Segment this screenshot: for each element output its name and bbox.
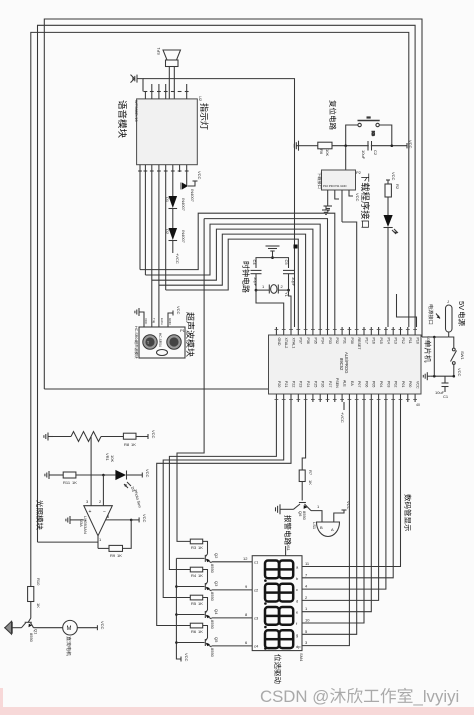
svg-text:12: 12: [243, 556, 248, 561]
wire power bottom rail: [430, 375, 454, 377]
svg-text:GND: GND: [168, 318, 172, 326]
svg-text:VCC: VCC: [197, 171, 202, 180]
svg-text:VCC: VCC: [391, 172, 396, 181]
potentiometer VR1 10K: [53, 432, 123, 506]
svg-text:1K: 1K: [198, 629, 203, 634]
node (reset-P2 junction): [344, 144, 347, 147]
svg-text:VCC: VCC: [151, 430, 156, 439]
resistor R7 1K: [299, 470, 305, 482]
crystal oval: [157, 350, 168, 356]
node rail-Q3: [175, 585, 178, 588]
svg-text:40: 40: [416, 403, 420, 407]
label 指示灯: [200, 103, 208, 129]
svg-text:P10: P10: [416, 338, 420, 344]
wire loop line 1 (track1 to MCU P33): [140, 213, 335, 327]
svg-text:P10 P30 P31 GND: P10 P30 P31 GND: [323, 184, 346, 188]
wire xtal to MCU pins: [256, 290, 284, 327]
svg-text:8550: 8550: [29, 633, 34, 643]
wire voice pin5 column: [165, 172, 167, 290]
ground (reset): [294, 141, 303, 151]
capacitor C5 30pF: [283, 260, 296, 291]
wire segment d to MCU: [302, 402, 379, 600]
svg-text:P12: P12: [401, 338, 405, 344]
svg-text:R9: R9: [110, 553, 116, 558]
MCU bottom pin stubs: [276, 394, 415, 402]
resistor R4 1K: [190, 567, 202, 572]
wire VCC pin stub to +VCC rail: [343, 402, 345, 410]
capacitor C2 10uF: [361, 141, 378, 160]
svg-text:VCC: VCC: [416, 381, 420, 389]
svg-text:8550: 8550: [210, 620, 215, 630]
display pin names: [254, 560, 301, 650]
svg-text:P13: P13: [394, 338, 398, 344]
resistor R2 (indicator): [385, 172, 400, 215]
svg-text:P11: P11: [408, 338, 412, 344]
wire reset node down to P2 connector: [345, 146, 347, 170]
wire outer loop 2 (light sensor line: top y=25.3, left x=37.5, right x=415): [38, 25, 416, 542]
ground near MCU top (EA): [322, 206, 330, 215]
resistor R3 1K: [190, 539, 202, 544]
node rail-Q4: [175, 613, 178, 616]
svg-text:89C52: 89C52: [339, 358, 344, 371]
wire P10 jog to MCU: [397, 294, 417, 327]
svg-text:P14: P14: [386, 338, 390, 344]
svg-text:−: −: [103, 509, 106, 515]
LED D4 indicator: [384, 215, 399, 327]
output: [97, 536, 99, 549]
svg-text:10uF: 10uF: [361, 150, 366, 160]
svg-text:Q3: Q3: [214, 581, 219, 587]
svg-text:dp: dp: [296, 644, 301, 649]
svg-text:VCC: VCC: [142, 514, 147, 523]
speaker SP1: [156, 47, 181, 67]
wire crystal rails: [256, 289, 269, 291]
wire loop line 4 (echo track to MCU P36): [159, 234, 306, 327]
svg-text:P00: P00: [408, 381, 412, 387]
svg-text:Trig: Trig: [152, 318, 156, 323]
svg-text:Q4: Q4: [214, 609, 219, 615]
photodiode D3 Photo Sen: [115, 469, 150, 508]
wire segment c to MCU: [302, 402, 386, 589]
wire loop line 2 (track2 to MCU P35): [145, 224, 320, 327]
wire loop line 3 (trig track to MCU P34): [152, 229, 313, 327]
label 位选驱动: [274, 654, 281, 683]
MCU top pin tick labels: [275, 329, 418, 331]
svg-text:LS1: LS1: [312, 522, 317, 530]
svg-text:ALE/PROG: ALE/PROG: [344, 352, 349, 373]
svg-text:P01: P01: [401, 381, 405, 387]
capacitor C4 30pF: [251, 260, 262, 291]
svg-text:10: 10: [305, 618, 310, 623]
ground (clock): [266, 246, 280, 258]
label 数码管显示: [404, 494, 411, 531]
svg-text:+VCC: +VCC: [175, 253, 180, 264]
svg-text:5V: 5V: [457, 301, 466, 310]
svg-text:C2: C2: [373, 150, 378, 156]
svg-text:C5: C5: [284, 260, 289, 266]
diode D2 IN4007: [165, 209, 186, 244]
svg-text:VCC: VCC: [355, 193, 360, 202]
decimal point 2: [264, 602, 267, 605]
svg-text:EA: EA: [350, 381, 354, 386]
label +VCC below diode chain: [172, 241, 174, 254]
digit 3: [265, 607, 293, 625]
svg-text:R10: R10: [36, 578, 41, 586]
wire outer loop 1 (motor line: top y=32.4, left x=31, right x=409): [31, 32, 409, 586]
MCU top pin stubs: [276, 327, 415, 335]
wire buzzer to VCC: [334, 510, 344, 522]
svg-text:8550: 8550: [302, 511, 307, 521]
transistor Q1 8550: [22, 622, 39, 642]
svg-text:M: M: [67, 626, 72, 632]
voice module U1 chip body: [137, 99, 198, 165]
node (bus corner): [294, 245, 298, 249]
wire Q6 collector to buzzer: [311, 511, 322, 522]
switch SW1: [449, 337, 465, 376]
wire voice pin2 column: [144, 172, 146, 275]
right pin to VCC: [106, 519, 132, 521]
wire ground to long line to MCU area (RST vertical): [137, 79, 143, 92]
decimal point 4: [264, 647, 267, 650]
ground (download): [324, 206, 333, 211]
transducer right: [167, 335, 181, 349]
diode D1 IN4007: [165, 172, 186, 212]
wire loop riser to R3: [177, 219, 204, 542]
MCU bottom pin tick labels: [275, 399, 418, 401]
svg-text:P17: P17: [364, 338, 368, 344]
node (clock rail): [271, 256, 274, 259]
resistor R5 1K: [190, 595, 202, 600]
buzzer LS1: [312, 522, 340, 537]
svg-text:P03: P03: [386, 381, 390, 387]
label 超声波模块: [186, 312, 194, 356]
svg-text:ALE: ALE: [343, 380, 347, 387]
wire op-amp output to left loop: [38, 541, 99, 543]
MCU top row pin names: [277, 338, 420, 351]
push button K3: [346, 118, 392, 146]
svg-text:1K: 1K: [36, 603, 41, 608]
wire transistor to motor: [34, 627, 63, 629]
wire loop line 5 (track5 to MCU P37): [166, 239, 299, 327]
svg-text:10K: 10K: [110, 455, 115, 462]
svg-text:8550: 8550: [210, 564, 215, 574]
label 复位电路: [329, 100, 336, 130]
transducer left: [143, 335, 157, 349]
svg-text:d: d: [296, 598, 298, 603]
svg-text:U2: U2: [198, 96, 203, 102]
svg-text:SM4: SM4: [299, 653, 304, 662]
wires download to MCU: [342, 222, 357, 327]
7-segment display DS1 body: [252, 556, 302, 651]
svg-text:VCC: VCC: [346, 501, 351, 510]
wire MCU P21 to R5: [163, 402, 284, 598]
MCU bottom row pin names: [277, 378, 420, 389]
svg-text:DS1: DS1: [286, 543, 291, 552]
label 下载程序接口: [361, 174, 370, 228]
svg-text:P04: P04: [379, 381, 383, 387]
svg-text:B: B: [320, 525, 323, 530]
svg-text:P32: P32: [335, 338, 339, 344]
svg-text:+VCC: +VCC: [340, 412, 345, 423]
voice module bottom pins: [138, 165, 189, 172]
decimal point 1: [264, 579, 267, 582]
svg-text:1K: 1K: [308, 480, 313, 485]
svg-text:XTAL1: XTAL1: [291, 338, 295, 349]
svg-text:RESET: RESET: [357, 338, 361, 351]
svg-text:P05: P05: [372, 381, 376, 387]
resistor R8 1K: [123, 430, 156, 447]
svg-text:P26: P26: [321, 381, 325, 387]
label 下载接口: [318, 172, 322, 188]
pink strip bottom: [0, 707, 474, 715]
svg-text:P34: P34: [321, 338, 325, 344]
digit 2: [265, 584, 293, 602]
resistor R9 feedback: [98, 520, 131, 558]
svg-text:P31: P31: [343, 338, 347, 344]
motor M 直流电机: [63, 620, 78, 635]
svg-text:R3: R3: [191, 545, 197, 550]
op-amp U3A LM393AN: [66, 499, 147, 548]
svg-text:1K: 1K: [131, 442, 136, 447]
wire Q2 to display c1: [212, 561, 253, 563]
svg-text:VCC: VCC: [176, 306, 181, 315]
svg-text:P16: P16: [372, 338, 376, 344]
svg-text:IN4007: IN4007: [181, 230, 186, 244]
svg-text:IN4007: IN4007: [181, 198, 186, 212]
download connector P2: [322, 170, 356, 190]
wire segment b to MCU: [302, 402, 393, 578]
svg-text:VCC: VCC: [144, 318, 148, 325]
svg-text:PSEN: PSEN: [335, 378, 339, 388]
label 语音模块: [118, 100, 127, 137]
svg-text:J: J: [447, 299, 449, 304]
svg-text:Q5: Q5: [214, 637, 219, 643]
svg-text:R11: R11: [63, 480, 71, 485]
svg-text:P23: P23: [299, 381, 303, 387]
svg-text:CSDN @: CSDN @: [260, 687, 329, 706]
svg-text:R7: R7: [308, 470, 313, 476]
resistor R11: [54, 472, 115, 506]
wire clock top rail: [256, 258, 289, 268]
power jack J: [446, 299, 453, 337]
svg-text:R5: R5: [191, 601, 197, 606]
wire emitter VCC rail: [176, 558, 181, 659]
wire Q4 to display c3: [212, 617, 253, 619]
node (xtal left): [255, 289, 258, 292]
label 沐欣工作室: [330, 688, 412, 704]
wire segment dp to MCU: [302, 402, 349, 646]
svg-text:g: g: [296, 632, 298, 637]
resistor R6 1K (driver): [190, 623, 202, 628]
wire segment e to MCU: [302, 402, 371, 612]
alarm feed wire P24 to R7: [302, 402, 305, 470]
transistor Q6 8550: [294, 503, 312, 521]
ground (motor): [4, 621, 21, 634]
VCC (ultrasonic): [168, 306, 181, 317]
svg-text:P37: P37: [299, 338, 303, 344]
diode to VCC (voice busy): [181, 171, 202, 203]
svg-text:P30: P30: [350, 338, 354, 344]
svg-text:R6: R6: [319, 149, 324, 155]
svg-text:30pF: 30pF: [291, 277, 296, 287]
svg-text:P15: P15: [379, 338, 383, 344]
svg-text:10K: 10K: [325, 149, 330, 156]
svg-text:HC-SR04: HC-SR04: [134, 326, 138, 341]
svg-text:1K: 1K: [117, 553, 122, 558]
node rail-Q5: [175, 641, 178, 644]
svg-text:1K: 1K: [198, 573, 203, 578]
wire motor to VCC: [77, 627, 97, 629]
capacitor C1 10uF: [435, 376, 449, 399]
svg-text:P07: P07: [357, 381, 361, 387]
svg-text:HC-SR04: HC-SR04: [158, 333, 162, 347]
wire Q3 to display c2: [212, 589, 253, 591]
svg-text:R4: R4: [191, 573, 197, 578]
svg-text:VCC: VCC: [145, 469, 150, 478]
wire voice pin3 / trig column: [151, 172, 153, 311]
decimal point 3: [264, 626, 267, 629]
digit 4: [265, 630, 293, 648]
svg-text:P20: P20: [277, 381, 281, 387]
wire segment a to MCU: [302, 402, 401, 567]
label 单片机: [424, 340, 431, 362]
wire Q5 to display c4: [212, 645, 253, 647]
node (reset-vcc junction): [391, 144, 394, 147]
resistor R10 (motor base): [28, 578, 41, 622]
ground (voice module top-left): [131, 75, 138, 83]
svg-text:+: +: [89, 509, 92, 515]
node (xtal right): [287, 289, 290, 292]
transistor Q5 8550: [176, 626, 219, 658]
svg-text:VCC: VCC: [184, 653, 189, 662]
svg-text:8550: 8550: [210, 648, 215, 658]
svg-text:C1: C1: [443, 394, 449, 399]
voice module top pins: [144, 84, 189, 99]
svg-text:P2: P2: [356, 170, 362, 175]
wire MCU P20 to R4: [169, 402, 276, 570]
ultrasonic module P1 body: [139, 327, 186, 358]
label 时钟电路: [242, 262, 249, 293]
svg-text:8550: 8550: [210, 592, 215, 602]
ground (power): [423, 372, 430, 380]
label 电源接口: [429, 305, 434, 325]
svg-text:WT588D-16: WT588D-16: [134, 100, 139, 122]
wire speaker terminal 1: [168, 67, 170, 99]
svg-text:R2: R2: [395, 184, 400, 190]
svg-text:IN4007: IN4007: [190, 189, 195, 203]
label 电源: [458, 312, 465, 326]
svg-text:_lvyiyi: _lvyiyi: [413, 687, 460, 706]
svg-text:A: A: [331, 527, 334, 532]
wire voice pin1 column: [139, 172, 141, 270]
svg-text:P35: P35: [313, 338, 317, 344]
svg-text:P25: P25: [313, 381, 317, 387]
label 报警电路: [284, 515, 291, 545]
power pin + ground: [70, 519, 84, 521]
svg-text:c: c: [296, 587, 298, 592]
svg-text:P27: P27: [328, 381, 332, 387]
svg-text:P36: P36: [306, 338, 310, 344]
svg-text:C4: C4: [252, 260, 257, 266]
digit 1: [265, 561, 293, 579]
crystal Y1: [262, 284, 289, 298]
wire segment f to MCU: [302, 402, 364, 623]
svg-text:R6: R6: [191, 629, 197, 634]
VCC (driver rail): [180, 657, 182, 662]
label 超声波模块: [135, 341, 138, 359]
microcontroller U3 89C52 body: [269, 335, 422, 394]
ground (alarm): [276, 504, 294, 514]
svg-text:P33: P33: [328, 338, 332, 344]
svg-text:P24: P24: [306, 381, 310, 387]
wire speaker terminal 2: [173, 67, 175, 99]
svg-text:GND: GND: [277, 338, 281, 346]
svg-text:P06: P06: [364, 381, 368, 387]
wire big horizontal from loop3 left to MCU: [44, 388, 268, 390]
svg-text:P22: P22: [291, 381, 295, 387]
svg-text:1K: 1K: [198, 601, 203, 606]
svg-text:P1: P1: [180, 328, 186, 333]
svg-text:XTAL2: XTAL2: [284, 338, 288, 349]
wire outer loop 3 (vcc line: top y=19, left x=44.3, right x=422): [44, 19, 422, 389]
svg-text:VCC: VCC: [457, 368, 462, 377]
svg-text:K3: K3: [371, 131, 376, 137]
resistor R6: [303, 142, 407, 156]
svg-text:1K: 1K: [198, 545, 203, 550]
transistor Q2 8550: [176, 541, 219, 573]
svg-text:30pF: 30pF: [253, 277, 258, 287]
svg-text:Echo: Echo: [160, 318, 164, 325]
label 光照模块: [36, 500, 43, 530]
wire MCU P22 to R6: [157, 402, 291, 626]
svg-text:SP1: SP1: [156, 47, 161, 55]
wire loop top to MCU P34 for riser: [204, 219, 327, 327]
ground (ultrasonic): [135, 308, 144, 317]
svg-text:Q2: Q2: [214, 553, 219, 559]
ground (R11): [45, 471, 54, 479]
ultrasonic pin stubs: [144, 311, 168, 327]
svg-text:VR1: VR1: [105, 453, 110, 462]
svg-text:VCC: VCC: [100, 621, 105, 630]
svg-text:VCC: VCC: [408, 140, 413, 149]
VCC (reset): [407, 140, 413, 149]
svg-text:P21: P21: [284, 381, 288, 387]
transistor Q4 8550: [176, 598, 219, 630]
svg-text:P02: P02: [394, 381, 398, 387]
wire voice pin4 / echo column: [158, 172, 160, 313]
ground (pot): [44, 433, 53, 441]
download connector pins down: [327, 190, 329, 206]
diode (power) arrow: [436, 314, 440, 319]
svg-text:R8: R8: [124, 442, 130, 447]
wire segment g to MCU: [302, 402, 357, 634]
svg-text:SW1: SW1: [460, 351, 465, 360]
wire power rail: [422, 336, 449, 338]
transistor Q3 8550: [176, 570, 219, 602]
svg-text:1K: 1K: [72, 480, 77, 485]
label 直流电机: [67, 636, 72, 656]
